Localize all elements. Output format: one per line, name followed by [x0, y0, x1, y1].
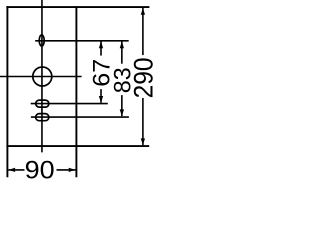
- keyhole ellipse: [39, 35, 44, 46]
- keyhole crosshair line: [35, 40, 129, 42]
- dim 290 line bottom segment: [142, 98, 144, 145]
- svg-text:290: 290: [130, 57, 157, 98]
- dim 290 line top segment: [142, 8, 144, 55]
- arrow 67 down: [99, 96, 103, 103]
- slot1: [36, 100, 49, 107]
- arrow 83 down: [120, 109, 124, 116]
- arrow 290 up: [141, 8, 145, 15]
- circle centerline: [0, 76, 82, 78]
- plate right edge: [75, 6, 77, 177]
- dim 90 line right segment: [57, 169, 76, 171]
- dim 83 line top segment: [121, 41, 123, 63]
- dim 83 line bottom segment: [121, 95, 123, 116]
- vertical centerline: [41, 0, 43, 152]
- slot1 centerline: [31, 103, 108, 105]
- slot2: [36, 114, 49, 121]
- dim 67 line bottom segment: [100, 89, 102, 103]
- arrow 290 down: [141, 138, 145, 145]
- dim 90 line left segment: [8, 169, 24, 171]
- dim 67 line top segment: [100, 41, 102, 55]
- plate top edge: [6, 6, 149, 8]
- arrow 90 right: [69, 168, 76, 172]
- arrow 90 left: [8, 168, 15, 172]
- circle hole: [33, 67, 52, 86]
- arrow 83 up: [120, 41, 124, 48]
- plate left edge: [6, 6, 8, 177]
- slot2 centerline: [31, 116, 129, 118]
- arrow 67 up: [99, 41, 103, 48]
- svg-text:90: 90: [25, 155, 55, 184]
- plate bottom edge: [6, 145, 149, 147]
